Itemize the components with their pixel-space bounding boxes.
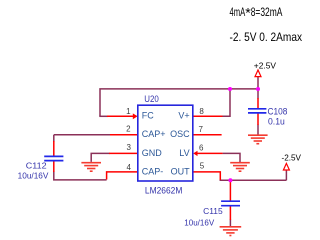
svg-text:8=32mA: 8=32mA — [251, 5, 283, 19]
svg-text:GND: GND — [142, 148, 163, 158]
svg-text:CAP+: CAP+ — [142, 129, 166, 139]
svg-text:10u/16V: 10u/16V — [18, 171, 49, 180]
svg-text:OUT: OUT — [171, 166, 191, 176]
svg-text:C115: C115 — [203, 207, 223, 216]
svg-text:5: 5 — [200, 162, 205, 171]
svg-text:7: 7 — [199, 125, 204, 134]
svg-text:LV: LV — [179, 148, 189, 158]
svg-text:V+: V+ — [178, 111, 189, 121]
svg-text:FC: FC — [142, 111, 154, 121]
svg-text:6: 6 — [199, 144, 204, 153]
svg-text:-2. 5V 0. 2Amax: -2. 5V 0. 2Amax — [230, 30, 303, 44]
svg-text:3: 3 — [127, 143, 132, 152]
svg-text:4mA: 4mA — [230, 5, 246, 19]
svg-text:C112: C112 — [26, 162, 47, 171]
svg-text:0.1u: 0.1u — [268, 116, 285, 126]
svg-text:OSC: OSC — [170, 129, 190, 139]
svg-text:2: 2 — [126, 125, 131, 134]
svg-text:1: 1 — [126, 107, 131, 116]
svg-text:10u/16V: 10u/16V — [184, 218, 215, 227]
svg-text:C108: C108 — [268, 106, 288, 116]
svg-text:CAP-: CAP- — [142, 166, 164, 176]
svg-text:-2.5V: -2.5V — [282, 152, 302, 162]
svg-text:LM2662M: LM2662M — [145, 186, 183, 197]
svg-text:4: 4 — [127, 163, 132, 172]
svg-text:+2.5V: +2.5V — [254, 60, 277, 70]
svg-text:8: 8 — [199, 107, 204, 116]
svg-text:U20: U20 — [144, 94, 159, 104]
